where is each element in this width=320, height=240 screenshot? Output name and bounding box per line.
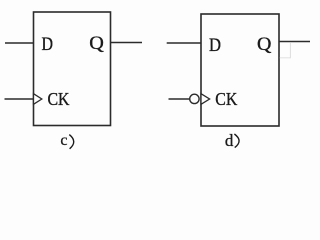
svg-text:d: d xyxy=(225,131,234,150)
svg-text:D: D xyxy=(209,36,221,56)
svg-text:c: c xyxy=(60,132,67,149)
wire: CK input of U2 xyxy=(169,98,190,100)
flip-flop U2 body (circuit d) xyxy=(201,14,279,126)
svg-text:CK: CK xyxy=(215,89,237,109)
wire: Q output of U2 xyxy=(279,41,310,43)
ghost print artifact right of U2 xyxy=(289,43,291,58)
wire: Q output of U1 xyxy=(111,42,143,44)
U1 dynamic clock indicator (edge-trigger triangle) xyxy=(34,94,42,105)
wire: D input of U1 xyxy=(5,42,34,44)
svg-text:Q: Q xyxy=(89,34,104,54)
svg-text:D: D xyxy=(42,35,54,55)
wire: D input of U2 xyxy=(167,42,201,44)
U2 dynamic clock indicator (edge-trigger triangle) xyxy=(201,94,210,105)
wire: CK input of U1 xyxy=(5,98,34,100)
U2 inversion bubble on CK xyxy=(190,94,199,103)
svg-text:Q: Q xyxy=(257,35,272,55)
svg-text:CK: CK xyxy=(48,89,70,109)
flip-flop U1 body (circuit c) xyxy=(34,12,111,126)
